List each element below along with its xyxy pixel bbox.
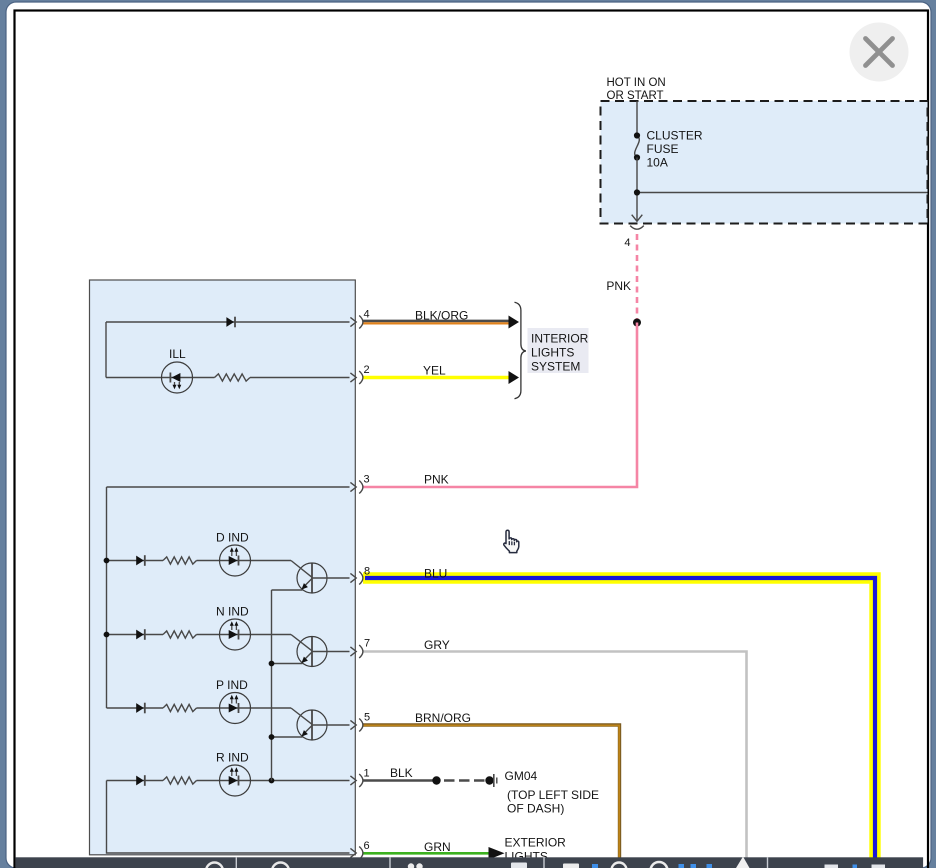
svg-text:7: 7 <box>364 638 370 650</box>
svg-text:FUSE: FUSE <box>647 142 679 156</box>
close button <box>850 23 909 82</box>
svg-text:3: 3 <box>364 473 370 485</box>
lamp N IND <box>220 619 251 650</box>
transistor Q1 <box>297 563 327 593</box>
svg-text:HOT IN ON: HOT IN ON <box>607 77 666 89</box>
svg-text:GRY: GRY <box>424 638 450 652</box>
transistor Q3 <box>297 710 327 740</box>
wire BLK dashed <box>444 779 486 782</box>
arrow BLK/ORG to interior lights <box>509 316 520 329</box>
wire left bus <box>106 487 108 708</box>
svg-text:BLU: BLU <box>424 567 447 581</box>
svg-text:2: 2 <box>364 364 370 376</box>
lamp P IND <box>220 693 251 724</box>
junction emitter bus N <box>269 661 275 667</box>
junction emitter bus to R IND row <box>269 778 275 784</box>
node INTERIOR LIGHTS SYSTEM <box>528 328 589 373</box>
wire loop left <box>105 322 107 378</box>
connector pin 6 <box>350 848 356 857</box>
resistor R1 <box>215 374 251 381</box>
svg-text:CLUSTER: CLUSTER <box>647 129 703 143</box>
wire row N IND <box>107 634 164 636</box>
wire PNK solid <box>363 323 638 488</box>
diode D5 <box>136 776 144 786</box>
lamp R IND <box>220 765 251 796</box>
wire BLU highlighted <box>363 578 875 858</box>
wire fuse output down <box>636 158 638 222</box>
lamp ILL <box>162 362 193 393</box>
svg-text:GRN: GRN <box>424 840 451 854</box>
connector pin 5 <box>350 720 356 729</box>
svg-text:INTERIOR: INTERIOR <box>531 331 589 345</box>
svg-text:P IND: P IND <box>216 678 248 692</box>
arrow GRN to exterior lights <box>489 847 505 860</box>
wire BLK <box>363 779 434 782</box>
resistor R3 <box>163 631 197 638</box>
wire row pin 2 <box>106 377 215 379</box>
junction left bus <box>104 632 110 638</box>
wire row pin 4 <box>106 321 350 323</box>
svg-text:LIGHTS: LIGHTS <box>531 345 574 359</box>
svg-text:D IND: D IND <box>216 531 249 545</box>
diode D2 <box>136 556 144 566</box>
fuse box HOT IN ON OR START <box>601 101 928 224</box>
svg-text:4: 4 <box>364 309 370 321</box>
wire emitter bus <box>271 590 273 781</box>
svg-text:8: 8 <box>364 566 370 578</box>
wire row pin 3 <box>107 486 350 488</box>
wire row P IND <box>107 707 164 709</box>
wire row D IND <box>107 560 164 562</box>
mouse cursor (hand pointer) <box>504 530 519 552</box>
connector pin 2 <box>350 373 356 382</box>
svg-text:N IND: N IND <box>216 605 249 619</box>
svg-text:BLK: BLK <box>390 766 413 780</box>
svg-text:OF DASH): OF DASH) <box>507 802 564 816</box>
svg-text:YEL: YEL <box>423 364 446 378</box>
svg-text:5: 5 <box>364 712 370 724</box>
svg-text:1: 1 <box>364 768 370 780</box>
connector pin 3 <box>350 482 356 491</box>
wire BRN/ORG <box>363 725 620 858</box>
wire PNK dashed segment <box>636 234 639 323</box>
fuse CLUSTER FUSE 10A <box>635 136 640 158</box>
svg-text:BRN/ORG: BRN/ORG <box>415 711 471 725</box>
wire fuse output right <box>637 192 928 194</box>
connector pin 7 <box>350 647 356 656</box>
diode D3 <box>136 630 144 640</box>
svg-text:4: 4 <box>624 237 630 249</box>
junction BLK <box>432 776 440 784</box>
junction emitter bus P <box>269 734 275 740</box>
connector pin 1 <box>350 776 356 785</box>
wire BLK/ORG <box>363 320 510 323</box>
svg-text:PNK: PNK <box>606 279 631 293</box>
svg-text:(TOP LEFT SIDE: (TOP LEFT SIDE <box>507 788 599 802</box>
instrument cluster block <box>90 280 356 855</box>
arrow YEL to interior lights <box>509 371 520 384</box>
transistor Q2 <box>297 637 327 667</box>
svg-text:GM04: GM04 <box>505 769 538 783</box>
diode D1 <box>226 317 234 327</box>
svg-text:ILL: ILL <box>169 347 186 361</box>
connector pin 4 fuse box <box>632 215 643 222</box>
resistor R4 <box>163 704 197 711</box>
resistor R2 <box>163 557 197 564</box>
svg-text:EXTERIOR: EXTERIOR <box>505 836 567 850</box>
svg-text:6: 6 <box>364 840 370 852</box>
lamp D IND <box>220 545 251 576</box>
svg-text:10A: 10A <box>647 156 668 170</box>
wire GRY <box>363 652 747 859</box>
diode D4 <box>136 703 144 713</box>
brace interior lights system <box>515 302 526 398</box>
svg-text:R IND: R IND <box>216 751 249 765</box>
connector pin 8 <box>350 573 356 582</box>
connector pin 4 <box>350 317 356 326</box>
svg-text:PNK: PNK <box>424 473 449 487</box>
resistor R5 <box>163 777 197 784</box>
wire row R IND <box>107 780 164 782</box>
wire fuse feed <box>636 101 638 136</box>
wire YEL <box>363 376 510 379</box>
junction fuse output <box>634 189 640 195</box>
wire GRN <box>363 852 489 855</box>
svg-text:BLK/ORG: BLK/ORG <box>415 309 468 323</box>
svg-text:OR START: OR START <box>607 90 664 102</box>
ground GM04 <box>485 776 493 784</box>
toolbar <box>16 857 924 868</box>
junction left bus <box>104 558 110 564</box>
wire bottom loop to pin 6 <box>107 781 350 854</box>
svg-text:SYSTEM: SYSTEM <box>531 359 580 373</box>
junction PNK <box>633 319 641 327</box>
